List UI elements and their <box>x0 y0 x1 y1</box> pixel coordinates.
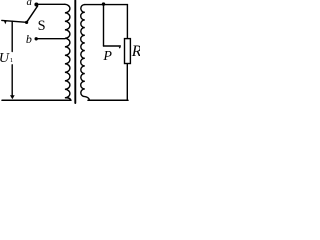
svg-text:1: 1 <box>10 57 13 64</box>
svg-text:a: a <box>27 0 32 8</box>
svg-text:R: R <box>131 43 140 60</box>
svg-text:b: b <box>26 32 32 46</box>
svg-text:S: S <box>38 18 46 34</box>
svg-text:P: P <box>102 49 112 64</box>
svg-text:U: U <box>0 51 10 66</box>
